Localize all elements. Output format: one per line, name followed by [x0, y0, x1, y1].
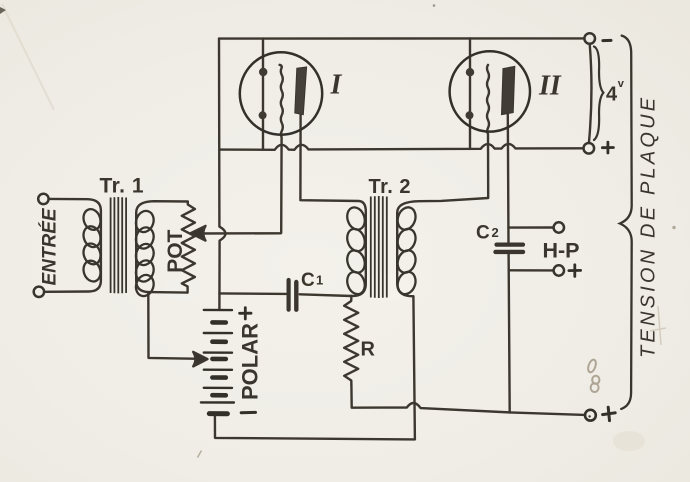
transformer Tr.2 secondary coil loops [395, 205, 419, 297]
wire left vertical (top rail to POLAR +), hops over wiper wire [219, 39, 226, 310]
wire H-P bottom tap [509, 269, 554, 272]
svg-text:Tr. 1: Tr. 1 [100, 174, 145, 197]
svg-text:v: v [618, 78, 625, 90]
wire ENTREE top terminal to Tr.1 primary, coil right spine, bottom back to terminal [44, 199, 101, 292]
terminal ENTREE bottom [34, 287, 44, 297]
wire bias drop from Tr.1 secondary bottom to POLAR tap arrow [148, 292, 200, 359]
svg-text:2: 2 [492, 225, 499, 240]
transformer Tr.1 core laminations [111, 197, 127, 293]
arrowhead potentiometer wiper [191, 226, 206, 241]
transformer Tr.1 secondary coil loops [133, 208, 156, 298]
tube I anode plate [295, 67, 307, 115]
capacitor C2 plates [496, 245, 524, 252]
wire plate I lead down and right into Tr.2 primary [300, 115, 365, 296]
wire 4v battery link (right edge, slight bow) [589, 44, 592, 143]
speck right edge [672, 226, 675, 229]
battery POLAR cells [201, 310, 234, 414]
polarity sign minus at 4v top [603, 39, 611, 42]
tube I filament contact dots [259, 68, 267, 76]
transformer Tr.2 primary coil loops [344, 205, 367, 297]
tube II anode plate [502, 66, 515, 114]
svg-text:C: C [476, 223, 490, 244]
brace 4v battery [594, 47, 603, 141]
wire C1 left (from left vertical) [219, 292, 286, 295]
svg-text:TENSION DE PLAQUE: TENSION DE PLAQUE [638, 95, 660, 358]
arrowhead POLAR tap [193, 352, 207, 367]
wire H-P top tap [508, 226, 553, 229]
svg-text:1: 1 [316, 273, 323, 288]
terminal plus 4v right [584, 143, 595, 154]
wire R bottom to + output terminal, hop over Tr.2 return [351, 385, 585, 415]
faint scan streak top-left [2, 4, 54, 110]
triode tube II envelope [450, 51, 530, 131]
wire grid I (wavy in tube) down to wiper line [197, 65, 283, 234]
wire bottom filament rail with hops over grid/plate leads [219, 144, 583, 150]
wire plate II vertical down to C2 top plate [507, 114, 510, 242]
pencil scribbles right [650, 306, 666, 345]
potentiometer POT zigzag [182, 202, 195, 293]
polarity sign plus H-P bottom [569, 265, 581, 277]
terminal minus 4v top right [584, 33, 595, 44]
wire Tr.2 secondary bottom down to long bottom wire to POLAR - [215, 296, 415, 439]
tube II filament contact dots [466, 68, 474, 76]
edge speck top-left [0, 7, 6, 14]
polarity sign plus output bottom right (tilted) [603, 407, 616, 420]
polarity sign minus POLAR bottom (rotated bar) [241, 411, 255, 414]
svg-text:ENTRÉE: ENTRÉE [39, 207, 61, 285]
resistor R zigzag [344, 296, 358, 385]
wire C1 right to R top / Tr.2 primary bottom junction [300, 294, 352, 296]
pencil mark 80 [587, 359, 600, 392]
svg-text:II: II [538, 71, 562, 102]
speck top middle [433, 4, 436, 7]
svg-text:Tr. 2: Tr. 2 [369, 176, 412, 198]
terminal H-P top [554, 222, 564, 232]
terminal H-P bottom plus [554, 265, 564, 275]
capacitor C1 plates [289, 280, 297, 310]
wire C2 bottom plate down to bottom output wire [509, 254, 510, 413]
wire tube II filament drop [469, 39, 471, 149]
svg-text:C: C [301, 270, 315, 291]
terminal plate voltage plus bottom right [585, 410, 596, 421]
svg-text:I: I [330, 70, 343, 101]
terminal ENTREE top [38, 194, 48, 204]
transformer Tr.2 core laminations [371, 196, 387, 298]
triode tube I envelope [240, 52, 322, 134]
polarity sign plus at 4v bottom [602, 142, 613, 153]
svg-text:H-P: H-P [543, 239, 580, 263]
svg-text:R: R [361, 339, 376, 361]
wire Tr.1 secondary spine with leads to POT top and bottom [136, 201, 188, 292]
pencil slash below battery [198, 451, 202, 458]
transformer Tr.1 primary coil loops [81, 207, 103, 284]
svg-text:POLAR: POLAR [238, 323, 263, 400]
svg-text:4: 4 [606, 84, 618, 106]
wire tube I filament drop [262, 39, 264, 150]
polarity sign plus POLAR top [240, 308, 251, 319]
wire grid II lead down and left into Tr.2 secondary top [397, 65, 489, 296]
brace tension de plaque [620, 36, 632, 409]
wire top filament rail [219, 37, 584, 40]
svg-text:POT: POT [164, 229, 187, 272]
faint smudges [613, 431, 645, 451]
